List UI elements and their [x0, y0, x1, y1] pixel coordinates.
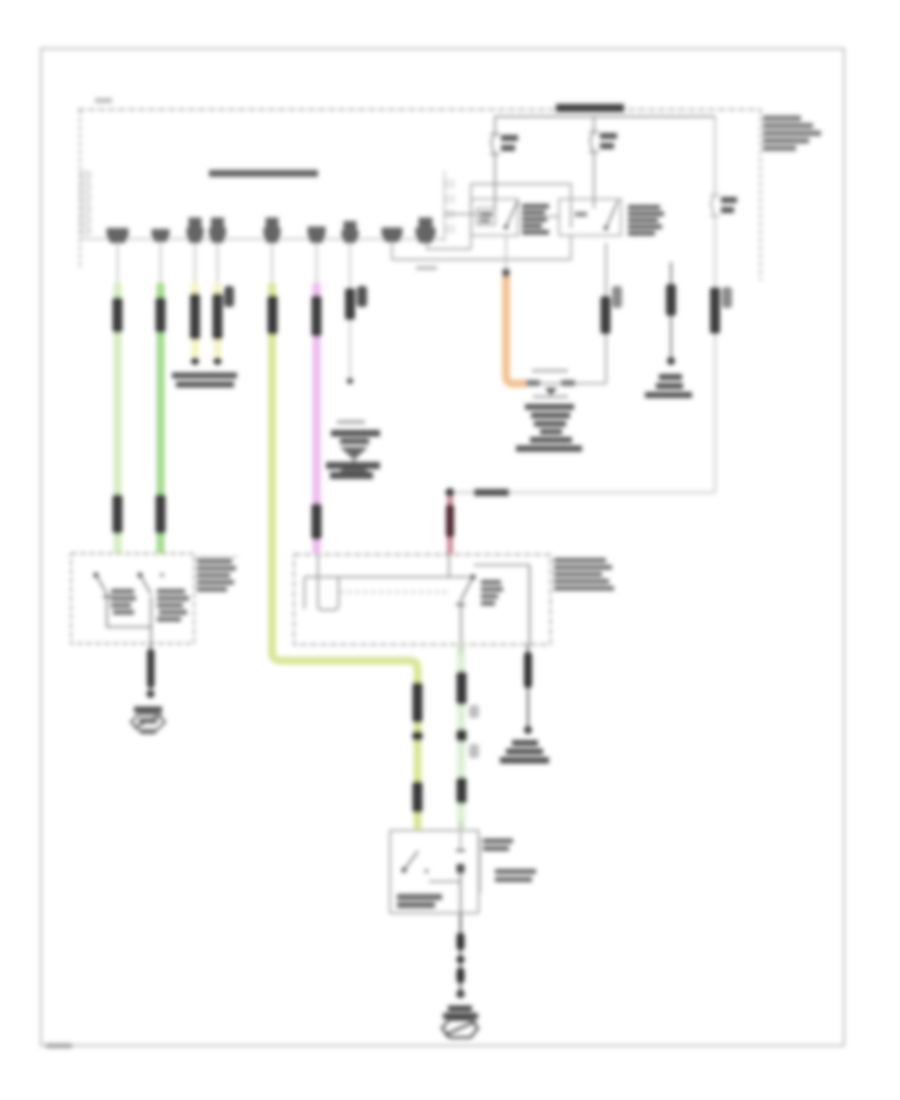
wire: internal L link: [107, 597, 151, 628]
wire: dark x527 to ground: [527, 645, 529, 729]
label: fuse1 value: [501, 135, 518, 141]
relay R2 coil: [570, 206, 572, 228]
label: S1 text: [111, 589, 136, 615]
label: fuse3 value: [721, 197, 737, 203]
wire: W1 light green x117: [117, 243, 119, 283]
pin x425: [419, 218, 433, 228]
switch S2: [137, 572, 142, 577]
fuse F3: [711, 197, 715, 215]
box: master switch: [294, 555, 551, 645]
label: side label right of white wire: [722, 287, 732, 308]
label: side label right of relay2 output: [612, 286, 622, 308]
wire: W7 grey x350: [349, 243, 351, 378]
ground G1 symbol: [134, 707, 162, 713]
corner mark bottom-left: [46, 1044, 72, 1049]
wire: W3 pale yellow x195: [194, 243, 196, 283]
wire: fuse1 feed: [494, 117, 496, 136]
pin x316: [308, 227, 326, 244]
label: under y259 line: [416, 266, 437, 270]
pin x217: [211, 218, 224, 228]
label: master switch text: [481, 580, 503, 606]
label: fuse2 value: [600, 133, 617, 139]
wire: grey link to relay2 output: [526, 383, 606, 385]
switch S1: [93, 572, 98, 577]
pin x195: [189, 218, 202, 228]
wire: pale green x461: [457, 645, 465, 830]
label: BODY CONTROL MODULE (BCM): [209, 170, 318, 177]
wire: relay1 output / orange: [505, 236, 507, 271]
wire: y214 link: [445, 213, 477, 215]
wire: bottom ground lead: [460, 913, 462, 995]
wire: relay1-relay2 link: [547, 216, 559, 218]
pin x160: [152, 229, 170, 242]
wire: BCM dashed left edge: [79, 110, 81, 271]
relay R2 switch: [606, 201, 618, 229]
wire: W6 violet x316: [316, 243, 318, 283]
pin x117: [107, 228, 129, 243]
wire: fuse2 feed: [593, 117, 595, 134]
switch motor: [401, 867, 406, 872]
wire: BCM dashed top edge: [78, 109, 761, 111]
ground G2 symbol: [448, 1006, 472, 1012]
pin x272: [266, 218, 279, 228]
wire: W4 pale yellow x217: [217, 243, 219, 283]
tab: bottom box label: [480, 837, 482, 893]
component: bowtie under W7: [326, 420, 380, 479]
relay R1 box: [471, 199, 518, 236]
wire: y184 link: [471, 184, 571, 249]
box: window motor: [390, 831, 479, 914]
label: side labels right of x461: [469, 705, 479, 718]
switch master: [470, 574, 475, 579]
wire: W2 green x160: [160, 243, 162, 283]
wire: fuse2 to relay2: [593, 152, 595, 208]
wire: pin392 link: [392, 236, 571, 260]
node: BCM right edge pin ticks: [446, 181, 454, 232]
label: side label right of W7: [357, 286, 367, 307]
label: S2 text: [157, 589, 189, 622]
wire: BCM bottom edge: [80, 238, 445, 240]
relay R1 switch: [506, 201, 518, 228]
relay R1 coil: [477, 208, 495, 225]
label: top-right module label block: [763, 116, 821, 152]
wire: ground wire x671: [670, 262, 672, 357]
label: relay2 text: [628, 205, 664, 236]
label: side label right of W4: [224, 286, 234, 307]
label: bottom box text: [397, 894, 442, 900]
wire: fuse1 to relay1: [494, 154, 496, 208]
wire: white wire down: [714, 216, 716, 493]
label: splice name: [474, 489, 509, 496]
fuse F1: [491, 136, 495, 153]
wire: BCM dashed right edge: [760, 110, 762, 282]
label: HOT AT ALL TIMES: [556, 104, 624, 112]
internal circuit: [304, 577, 306, 609]
pin x392: [382, 228, 403, 243]
label: relay1 text: [522, 204, 549, 235]
pin x350: [344, 221, 357, 230]
box: driver window switch: [71, 554, 194, 644]
wire: power bus: [495, 116, 715, 118]
label: text under yellow wires: [172, 373, 237, 379]
wire: S2 to box bottom: [150, 597, 152, 644]
tab: middle box label: [554, 558, 614, 591]
wire: dark red wire x450: [447, 497, 453, 554]
wire: white wire feed: [714, 117, 716, 197]
relay R2 box: [559, 199, 621, 236]
label: G ground text: [512, 740, 538, 746]
node: splice junction: [446, 488, 455, 497]
wire: ground lead below left box: [150, 644, 152, 693]
tab: left box label: [194, 556, 238, 558]
label: G ground text: [659, 374, 682, 380]
wire: W5 chartreuse x272 path: [271, 243, 273, 283]
node: BCM left edge pin ticks: [81, 172, 90, 234]
wire: BCM right inner edge: [444, 171, 446, 242]
label: tiny text top-left above dashed line: [95, 98, 112, 103]
wire: white wire horizontal: [450, 492, 715, 494]
wire: pin425 link: [427, 243, 471, 249]
fuse F2: [590, 134, 594, 151]
splice component under orange junction: [516, 369, 582, 452]
